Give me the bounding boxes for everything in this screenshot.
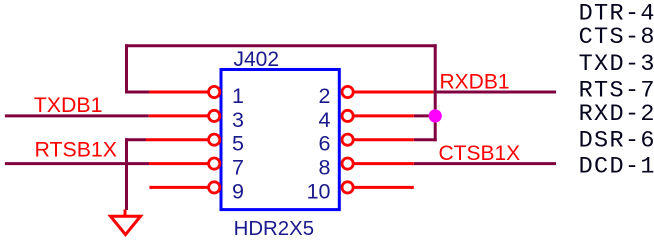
svg-text:TXDB1: TXDB1 (34, 93, 103, 117)
pin 6 terminal circle (342, 134, 353, 145)
wire: pin7 red segment (149, 162, 209, 165)
wire: TXDB1 net horizontal to pin 3 (5, 114, 149, 117)
svg-text:J402: J402 (234, 48, 280, 71)
pin 9 terminal circle (209, 182, 220, 193)
svg-text:CTSB1X: CTSB1X (439, 142, 521, 165)
pin 4 terminal circle (342, 110, 353, 121)
wire: pin3 red segment (149, 114, 209, 117)
wire: RTSB1X net horizontal to pin 7 (5, 162, 149, 165)
wire: pin6 red segment (354, 138, 414, 141)
svg-text:8: 8 (319, 156, 331, 180)
wire: top-left vertical drop to pin 1 row (125, 44, 128, 92)
svg-text:1: 1 (232, 84, 244, 108)
svg-text:6: 6 (319, 132, 331, 156)
svg-text:3: 3 (232, 108, 244, 132)
ground symbol triangle (111, 216, 141, 234)
wire: pin4 row maroon to junction (414, 114, 437, 117)
pin 2 terminal circle (342, 86, 353, 97)
wire: pin2 red segment (354, 91, 434, 94)
wire: CTSB1X net maroon to DCD-1 (414, 162, 556, 165)
connector J402 body (221, 70, 339, 210)
wire: pin1 row left maroon segment (125, 91, 150, 94)
wire: pin4 red segment (354, 114, 414, 117)
svg-text:4: 4 (319, 108, 331, 132)
pin 10 terminal circle (342, 182, 353, 193)
svg-text:2: 2 (319, 84, 331, 108)
svg-text:DSR-6: DSR-6 (579, 128, 654, 155)
svg-text:RXD-2: RXD-2 (579, 101, 654, 128)
wire: pin1 red segment (150, 91, 210, 94)
junction dot at pin4 net (429, 109, 442, 122)
pin 3 terminal circle (209, 110, 220, 121)
svg-text:10: 10 (307, 179, 331, 203)
wire: pin2 row maroon to RTS-7 (433, 91, 556, 94)
wire: pin8 red segment (354, 162, 414, 165)
svg-text:RXDB1: RXDB1 (440, 70, 510, 93)
wire: pin5 row corner horizontal to ground vertical (125, 138, 146, 141)
svg-text:RTSB1X: RTSB1X (35, 137, 117, 161)
svg-text:CTS-8: CTS-8 (579, 24, 654, 51)
wire: ground vertical drop (125, 138, 128, 210)
wire: pin9 red stub (149, 186, 209, 189)
pin 1 terminal circle (209, 86, 220, 97)
svg-text:DCD-1: DCD-1 (579, 154, 654, 181)
ground red stub (124, 210, 127, 217)
wire: right vertical from top bus down to pin 6 row (434, 44, 437, 141)
pin 8 terminal circle (342, 158, 353, 169)
wire: pin10 red stub (354, 186, 414, 189)
svg-text:7: 7 (232, 156, 244, 180)
svg-text:TXD-3: TXD-3 (579, 51, 654, 78)
wire: pin5 red segment (146, 138, 209, 141)
svg-text:9: 9 (232, 179, 244, 203)
pin 5 terminal circle (209, 134, 220, 145)
wire: pin6 row maroon to right vertical (414, 138, 437, 141)
wire: top bus horizontal (pin1 net to right vertical) (125, 44, 437, 47)
svg-text:5: 5 (232, 132, 244, 156)
svg-text:HDR2X5: HDR2X5 (234, 218, 314, 240)
pin 7 terminal circle (209, 158, 220, 169)
